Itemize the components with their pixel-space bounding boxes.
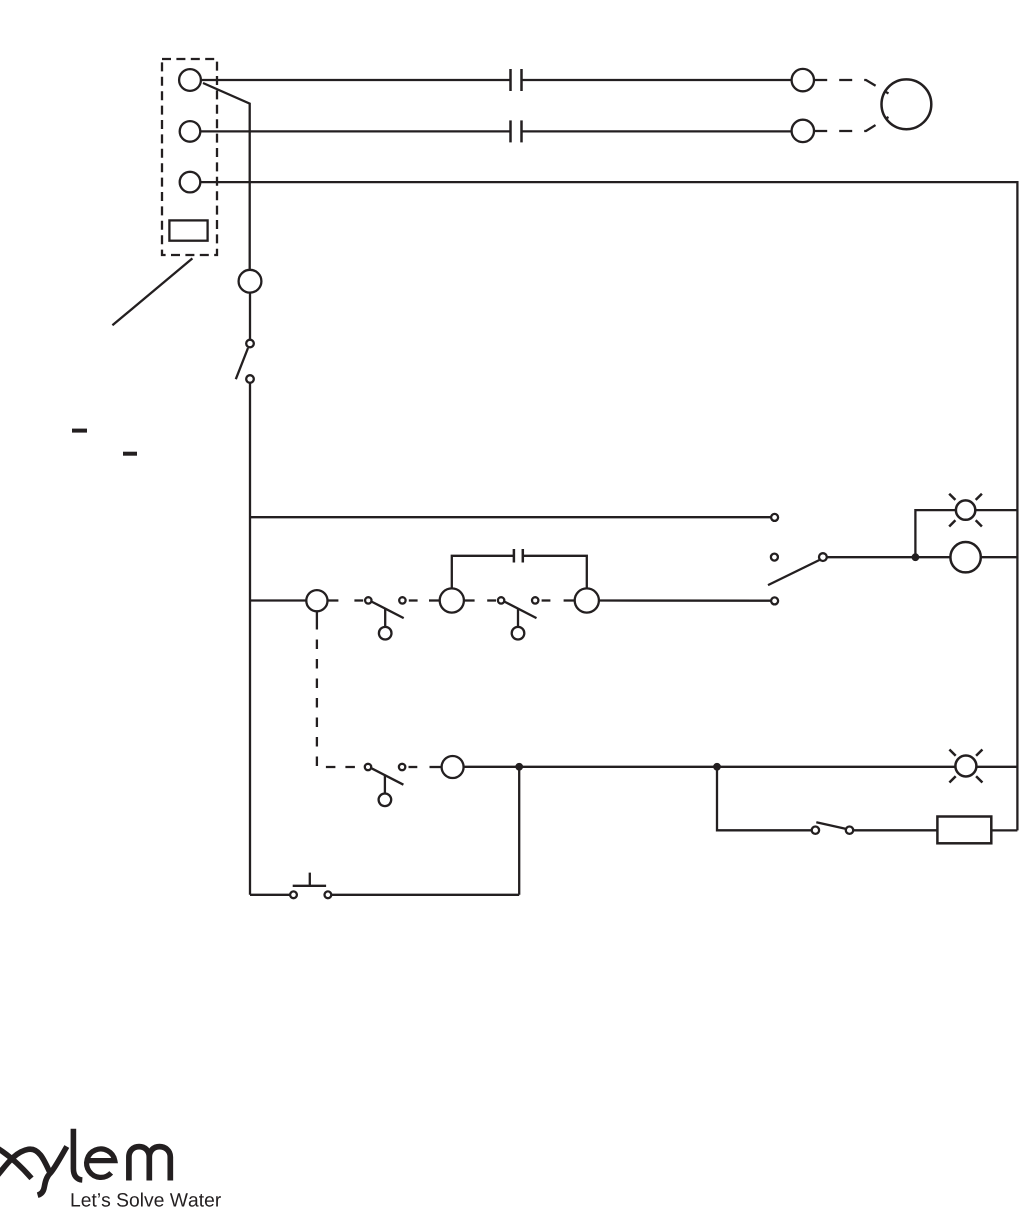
xylem tagline bbox=[72, 1193, 221, 1207]
seal-in contact bars bbox=[514, 549, 523, 563]
wire stub after M1 bbox=[328, 599, 339, 601]
branch to lamp 1 bbox=[915, 510, 956, 557]
wire L1 left segment bbox=[201, 79, 511, 81]
terminal L1 bbox=[179, 69, 201, 91]
pressure switch PS3 bbox=[365, 764, 406, 806]
pressure switch PS2 bbox=[498, 597, 539, 639]
rung A wire bbox=[250, 516, 771, 518]
wire L2 right segment bbox=[522, 130, 792, 132]
alarm switch contact right bbox=[846, 827, 853, 834]
branch from L1 terminal bbox=[203, 83, 250, 270]
dash after PS2 bbox=[542, 599, 551, 601]
dashed linkage from M1 bbox=[317, 611, 361, 767]
indicator lamp 2 bbox=[949, 750, 982, 783]
stray dash 1 bbox=[72, 429, 87, 433]
motor coil MC bbox=[950, 542, 980, 572]
stray dash 2 bbox=[123, 452, 137, 456]
lamp 2 wire to bus bbox=[976, 766, 1017, 768]
dash before PS2 bbox=[487, 599, 496, 601]
leader line to terminal block bbox=[112, 258, 192, 325]
pushbutton actuator bbox=[293, 873, 326, 886]
wire L1 right segment bbox=[522, 79, 792, 81]
pushbutton contact left bbox=[290, 891, 297, 898]
dashed motor lead bottom bbox=[814, 117, 888, 131]
dash before PS1 bbox=[354, 599, 363, 601]
relay coil M2 bbox=[440, 588, 464, 612]
seal-in branch bbox=[452, 556, 587, 589]
relay coil M3 bbox=[575, 588, 599, 612]
control device M1 bbox=[306, 590, 327, 611]
drop wire from J2 bbox=[717, 767, 812, 831]
indicator lamp 1 bbox=[949, 494, 982, 527]
terminal block dashed enclosure bbox=[162, 59, 217, 255]
wire L2 left segment bbox=[200, 130, 510, 132]
disconnect blade bbox=[236, 348, 248, 379]
selector contact middle bbox=[771, 554, 778, 561]
bottom wire left bbox=[250, 894, 290, 896]
alarm switch blade bbox=[816, 822, 846, 829]
alarm switch contact left bbox=[812, 827, 819, 834]
wire alarm to bus bbox=[991, 829, 1017, 831]
wire L3 and right bus bbox=[200, 182, 1017, 830]
control device M4 bbox=[442, 756, 464, 778]
pressure switch PS1 bbox=[365, 597, 406, 639]
junction J2 bbox=[713, 763, 721, 771]
terminal T1 bbox=[792, 69, 814, 91]
dash after PS1 bbox=[409, 599, 418, 601]
junction J1 bbox=[515, 763, 523, 771]
wire stub before M3 bbox=[564, 599, 575, 601]
overload contact OL1 bbox=[511, 69, 522, 91]
selector contact top bbox=[771, 514, 778, 521]
rung B wire bbox=[250, 599, 306, 601]
wire M4 to junctions bbox=[464, 766, 956, 768]
terminal L2 bbox=[180, 121, 201, 142]
motor M bbox=[882, 79, 932, 129]
overload contact OL2 bbox=[511, 120, 522, 142]
lamp 1 wire to bus bbox=[975, 509, 1017, 511]
alarm device rectangle bbox=[937, 817, 991, 844]
wire stub before M4 bbox=[430, 766, 442, 768]
selector pivot bbox=[819, 553, 827, 561]
dash after PS3 bbox=[409, 766, 418, 768]
pushbutton contact right bbox=[325, 891, 332, 898]
coil wire to bus bbox=[981, 556, 1018, 558]
rung B wire right bbox=[599, 599, 771, 602]
wire stub after M2 bbox=[464, 599, 475, 601]
dashed motor lead top bbox=[814, 80, 888, 94]
xylem logo wordmark bbox=[0, 1129, 170, 1195]
wire stub before M2 bbox=[429, 599, 440, 601]
fuse F bbox=[239, 270, 262, 293]
disconnect contact bottom bbox=[246, 375, 254, 383]
selector output wire bbox=[827, 556, 951, 558]
selector contact bottom bbox=[771, 597, 778, 604]
selector blade bbox=[768, 560, 819, 585]
terminal T2 bbox=[792, 120, 814, 142]
wire to alarm device bbox=[853, 829, 937, 831]
disconnect contact top bbox=[246, 340, 254, 348]
junction J3 bbox=[912, 553, 920, 561]
terminal L3 bbox=[180, 172, 201, 193]
left control bus bbox=[249, 383, 251, 895]
terminal block indicator rectangle bbox=[169, 220, 207, 240]
drop wire from J1 bbox=[518, 767, 520, 895]
bottom wire right bbox=[331, 894, 519, 896]
wire fuse to disconnect bbox=[249, 293, 251, 340]
